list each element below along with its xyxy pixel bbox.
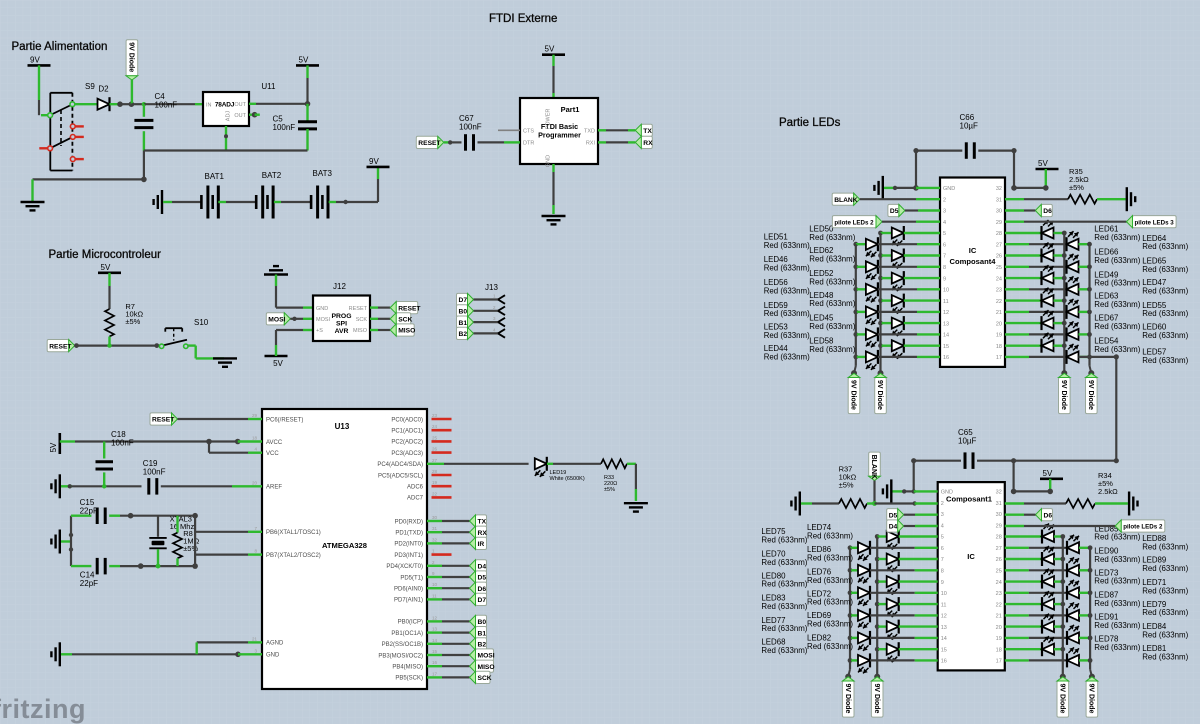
svg-text:12: 12	[943, 310, 949, 316]
svg-text:PC1(ADC1): PC1(ADC1)	[391, 429, 423, 435]
wire	[427, 620, 442, 622]
wire junction	[141, 177, 147, 183]
wire junction	[129, 101, 135, 107]
svg-text:100nF: 100nF	[273, 123, 296, 132]
wire	[884, 187, 895, 189]
svg-text:Red (633nm): Red (633nm)	[807, 598, 853, 607]
svg-text:PC2(ADC2): PC2(ADC2)	[391, 440, 423, 446]
svg-text:4: 4	[941, 523, 944, 529]
svg-text:2: 2	[941, 501, 944, 507]
wire	[893, 490, 905, 492]
net label flag D6 (Composant4)	[1041, 204, 1052, 216]
svg-text:D4: D4	[478, 564, 487, 571]
svg-text:Red (633nm): Red (633nm)	[807, 642, 853, 651]
LED LED55 (right outer)	[1005, 311, 1029, 313]
net label flag 9V Diode (left inner)	[875, 378, 887, 414]
ground (battery chain)	[161, 190, 163, 214]
pin 4 of J13	[498, 329, 505, 333]
svg-text:18: 18	[996, 344, 1002, 350]
svg-text:32: 32	[432, 537, 438, 542]
pin 1 of J13	[498, 295, 505, 299]
svg-text:24: 24	[432, 424, 438, 429]
wire	[188, 344, 196, 346]
svg-text:Red (633nm): Red (633nm)	[809, 299, 855, 308]
LED LED76 (left inner)	[875, 579, 880, 584]
wire left inner rail	[876, 537, 878, 677]
net label flag RESET (FTDI)	[416, 136, 438, 148]
wire	[552, 55, 554, 66]
LED LED65 (right outer)	[1005, 266, 1029, 268]
svg-text:19: 19	[996, 636, 1002, 642]
net label flag 9V Diode (right inner)	[1057, 681, 1069, 717]
svg-text:13: 13	[432, 627, 438, 632]
svg-text:11: 11	[941, 602, 947, 608]
wire	[109, 565, 120, 567]
wire	[75, 103, 98, 105]
wire	[627, 463, 636, 465]
net label flag B1 (U13)	[476, 627, 487, 639]
ground (S10)	[213, 357, 237, 359]
LED LED72 (left inner)	[875, 602, 880, 607]
svg-text:MOSI: MOSI	[268, 317, 285, 324]
svg-text:Red (633nm): Red (633nm)	[1094, 533, 1140, 542]
svg-text:TX: TX	[643, 128, 652, 135]
wire to ground	[33, 178, 144, 180]
svg-text:15: 15	[432, 649, 438, 654]
svg-text:VCC: VCC	[266, 451, 279, 457]
svg-text:Red (633nm): Red (633nm)	[1094, 256, 1140, 265]
svg-text:IN: IN	[206, 102, 212, 108]
svg-text:27: 27	[432, 458, 438, 463]
microcontroller U13 ATMEGA328	[262, 409, 427, 689]
svg-text:Red (633nm): Red (633nm)	[809, 277, 855, 286]
wire OUT2 stub	[249, 113, 255, 115]
svg-text:100nF: 100nF	[111, 439, 134, 448]
wire GND	[552, 164, 554, 172]
wire junction	[305, 101, 311, 107]
svg-text:PD6(AIN0): PD6(AIN0)	[394, 587, 423, 593]
svg-text:D6: D6	[1043, 208, 1052, 215]
svg-text:AGND: AGND	[266, 641, 284, 647]
LED LED48 (left inner)	[878, 298, 883, 303]
wire	[1095, 502, 1128, 504]
svg-text:11: 11	[432, 593, 437, 598]
net label flag 9V Diode (right outer)	[1086, 378, 1098, 414]
wire	[860, 198, 916, 200]
svg-text:PB7(XTAL2/TOSC2): PB7(XTAL2/TOSC2)	[266, 553, 321, 559]
LED LED47 (right outer)	[1005, 288, 1029, 290]
wire pin29 to pilote LEDs 3	[1005, 220, 1024, 222]
svg-text:ADC7: ADC7	[407, 496, 424, 502]
power 5V (reset pullup)	[98, 271, 121, 274]
svg-text:100nF: 100nF	[459, 123, 482, 132]
svg-text:15: 15	[943, 344, 949, 350]
wire	[1097, 198, 1126, 200]
LED LED50 (left inner)	[878, 231, 883, 236]
wire right outer rail	[1088, 244, 1090, 366]
svg-text:Red (633nm): Red (633nm)	[807, 620, 853, 629]
FTDI Basic Programmer Part1	[520, 98, 598, 164]
power 5V (U13 supply)	[58, 433, 61, 454]
wire	[218, 201, 226, 203]
svg-text:23: 23	[996, 591, 1002, 597]
power 5V (regulator output)	[296, 64, 319, 67]
svg-text:Red (633nm): Red (633nm)	[809, 233, 855, 242]
net label flag D6 (Composant1)	[1042, 509, 1053, 521]
wire PC4 net	[427, 463, 444, 465]
svg-text:RESET: RESET	[152, 417, 175, 424]
svg-text:D6: D6	[478, 586, 487, 593]
wire	[274, 201, 281, 203]
wire	[110, 103, 121, 105]
svg-text:Red (633nm): Red (633nm)	[1094, 300, 1140, 309]
svg-text:3: 3	[941, 512, 944, 518]
LED LED46 (left outer)	[853, 264, 858, 269]
svg-text:30: 30	[996, 512, 1002, 518]
svg-text:24: 24	[996, 580, 1002, 586]
wire	[873, 481, 875, 504]
svg-text:Red (633nm): Red (633nm)	[1142, 631, 1188, 640]
LED LED45 (left inner)	[878, 321, 883, 326]
wire right rail	[194, 516, 196, 566]
wire	[474, 310, 499, 312]
net label flag RESET (U13)	[150, 413, 172, 425]
ground (R35)	[1126, 187, 1128, 211]
LED LED82 (left inner)	[875, 647, 880, 652]
net label flag D7 (U13)	[476, 593, 487, 605]
svg-text:Red (633nm): Red (633nm)	[1142, 286, 1188, 295]
wire right inner rail	[1063, 233, 1065, 373]
svg-text:PB1(OC1A): PB1(OC1A)	[391, 631, 423, 637]
wire	[882, 221, 916, 223]
LED LED73 (right inner)	[1005, 580, 1042, 582]
net label flag SCK (U13)	[476, 671, 491, 683]
wire	[427, 565, 442, 567]
svg-text:12: 12	[432, 615, 438, 620]
wire	[478, 141, 505, 143]
svg-text:5V: 5V	[1043, 469, 1053, 478]
svg-text:AVCC: AVCC	[266, 440, 283, 446]
svg-text:9V Diode: 9V Diode	[128, 42, 135, 72]
svg-text:6: 6	[943, 242, 946, 248]
svg-text:10µF: 10µF	[958, 437, 977, 446]
svg-text:fritzing: fritzing	[0, 694, 86, 724]
wire pin29 to pilote LEDs 2	[1005, 525, 1024, 527]
ground (Composant1 GND)	[890, 479, 892, 503]
svg-text:PC6(/RESET): PC6(/RESET)	[266, 417, 303, 423]
wire right outer rail	[1089, 548, 1091, 670]
svg-text:10µF: 10µF	[960, 122, 979, 131]
svg-text:26: 26	[996, 557, 1002, 563]
wire top branch	[71, 515, 91, 517]
svg-text:PD2(INT0): PD2(INT0)	[394, 542, 423, 548]
svg-text:RESET: RESET	[418, 140, 441, 147]
svg-text:Red (633nm): Red (633nm)	[764, 264, 810, 273]
LED LED60 (right outer)	[1005, 333, 1029, 335]
svg-text:IC: IC	[969, 246, 977, 255]
svg-text:4: 4	[943, 220, 946, 226]
svg-text:23: 23	[996, 288, 1002, 294]
svg-text:16: 16	[941, 659, 947, 665]
svg-text:Red (633nm): Red (633nm)	[1142, 356, 1188, 365]
svg-text:15: 15	[941, 647, 947, 653]
svg-text:PD4(XCK/T0): PD4(XCK/T0)	[386, 564, 423, 570]
LED LED84 (right outer)	[1005, 637, 1029, 639]
wire	[427, 665, 442, 667]
svg-text:PC0(ADC0): PC0(ADC0)	[391, 417, 423, 423]
wire to PB6	[195, 531, 248, 533]
svg-text:10: 10	[943, 288, 949, 294]
net label flag SCK (J12)	[396, 313, 411, 325]
wire	[913, 461, 915, 492]
svg-text:6: 6	[941, 546, 944, 552]
svg-text:Partie LEDs: Partie LEDs	[779, 117, 841, 129]
svg-text:Composant1: Composant1	[946, 495, 993, 504]
wire	[306, 65, 308, 78]
LED LED74 (left inner)	[875, 534, 880, 539]
unconnected switch pins	[70, 124, 75, 129]
svg-text:3: 3	[943, 209, 946, 215]
svg-text:16: 16	[943, 355, 949, 361]
LED LED66 (right inner)	[1005, 254, 1042, 256]
LED LED67 (right inner)	[1005, 322, 1042, 324]
svg-text:29: 29	[996, 523, 1002, 529]
svg-text:2.5kΩ: 2.5kΩ	[1098, 487, 1118, 496]
svg-text:J12: J12	[333, 282, 346, 291]
power 9V (input)	[28, 64, 51, 67]
net label flag RX (U13)	[476, 526, 487, 538]
svg-text:28: 28	[996, 535, 1002, 541]
svg-text:31: 31	[996, 197, 1002, 203]
svg-text:MISO: MISO	[398, 328, 415, 335]
wire AREF rail	[61, 485, 72, 487]
svg-text:20: 20	[252, 480, 258, 485]
svg-text:9: 9	[943, 276, 946, 282]
svg-text:BAT1: BAT1	[205, 172, 225, 181]
svg-text:B1: B1	[459, 320, 468, 327]
wire	[427, 643, 442, 645]
svg-text:U13: U13	[335, 422, 350, 431]
net label flag pilote LEDs 3	[1133, 216, 1177, 228]
ground (Composant4 GND)	[882, 176, 884, 200]
net label flag RX	[641, 136, 652, 148]
LED LED69 (left inner)	[875, 624, 880, 629]
LED LED57 (right outer)	[1005, 356, 1029, 358]
svg-text:5V: 5V	[273, 359, 283, 368]
svg-text:24: 24	[996, 276, 1002, 282]
LED LED78 (right inner)	[1005, 648, 1042, 650]
wire	[904, 514, 915, 516]
svg-text:PB0(ICP): PB0(ICP)	[398, 620, 423, 626]
svg-text:GND: GND	[546, 155, 552, 167]
net label flag D6 (U13)	[476, 582, 487, 594]
svg-text:BLANK: BLANK	[834, 197, 858, 204]
svg-text:POWER: POWER	[546, 109, 552, 130]
svg-text:29: 29	[252, 413, 258, 418]
svg-text:17: 17	[432, 671, 438, 676]
svg-text:Red (633nm): Red (633nm)	[764, 241, 810, 250]
wire TXD to TX	[598, 129, 606, 131]
wire	[1012, 461, 1014, 492]
wire OUT1	[249, 103, 256, 105]
svg-text:MISO: MISO	[478, 664, 495, 671]
svg-text:CTS: CTS	[523, 129, 534, 135]
svg-text:Red (633nm): Red (633nm)	[1094, 643, 1140, 652]
svg-text:SCK: SCK	[356, 317, 368, 323]
svg-text:Red (633nm): Red (633nm)	[761, 602, 807, 611]
svg-text:RX: RX	[643, 140, 653, 147]
wire	[275, 345, 277, 356]
svg-text:IC: IC	[967, 552, 975, 561]
ground (R37)	[799, 492, 801, 516]
wire	[131, 103, 144, 105]
svg-text:10: 10	[432, 582, 438, 587]
ground (AREF rail)	[59, 474, 61, 498]
svg-text:30: 30	[432, 515, 438, 520]
svg-text:MOSI: MOSI	[316, 317, 331, 323]
net label flag BLANK (Composant4)	[832, 193, 854, 205]
net label flag 9V Diode (left outer)	[842, 681, 854, 717]
svg-text:22: 22	[432, 491, 438, 496]
LED LED61 (right inner)	[1005, 232, 1042, 234]
unconnected pin PC1(ADC1)	[432, 429, 452, 432]
svg-text:PD1(TXD): PD1(TXD)	[395, 531, 423, 537]
net label flag 9V Diode	[126, 40, 138, 76]
wire GND rail	[61, 653, 72, 655]
svg-text:7: 7	[941, 557, 944, 563]
svg-text:RESET: RESET	[398, 305, 421, 312]
LED LED52 (left inner)	[878, 276, 883, 281]
svg-text:22pF: 22pF	[80, 579, 98, 588]
net label flag pilote LEDs 2 (Composant4)	[832, 216, 876, 228]
svg-text:9V Diode: 9V Diode	[1087, 380, 1094, 410]
net label flag 9V Diode (left outer)	[848, 378, 860, 414]
svg-text:PROG: PROG	[331, 313, 351, 320]
wire	[370, 329, 378, 331]
svg-text:8: 8	[943, 265, 946, 271]
net label flag D5 (Composant1)	[887, 509, 898, 521]
svg-text:PC3(ADC3): PC3(ADC3)	[391, 451, 423, 457]
svg-text:9: 9	[941, 580, 944, 586]
wire	[474, 332, 499, 334]
svg-text:pilote LEDs 2: pilote LEDs 2	[1123, 524, 1163, 531]
net label flag IR (U13)	[476, 537, 487, 549]
svg-text:D7: D7	[478, 597, 487, 604]
svg-text:14: 14	[432, 638, 438, 643]
svg-text:25: 25	[996, 265, 1002, 271]
svg-text:23: 23	[432, 413, 438, 418]
svg-text:Part1: Part1	[561, 105, 580, 114]
svg-text:Red (633nm): Red (633nm)	[809, 322, 855, 331]
svg-text:100nF: 100nF	[143, 468, 166, 477]
wire	[38, 65, 40, 100]
svg-text:Red (633nm): Red (633nm)	[1094, 621, 1140, 630]
net label flag TX (U13)	[476, 515, 487, 527]
svg-text:21: 21	[996, 614, 1002, 620]
driver IC Composant4	[940, 178, 1005, 367]
svg-text:8: 8	[941, 569, 944, 575]
LED LED62 (left inner)	[878, 253, 883, 258]
svg-text:5V: 5V	[101, 263, 111, 272]
svg-text:20: 20	[996, 321, 1002, 327]
svg-text:PB3(MOSI/OC2): PB3(MOSI/OC2)	[378, 653, 423, 659]
svg-text:10: 10	[941, 591, 947, 597]
unconnected pin PC2(ADC2)	[432, 440, 452, 443]
svg-text:14: 14	[941, 636, 947, 642]
svg-text:25: 25	[996, 569, 1002, 575]
LED LED88 (right outer)	[1005, 547, 1029, 549]
svg-text:B2: B2	[459, 331, 468, 338]
wire left outer rail	[855, 244, 857, 366]
svg-text:28: 28	[996, 231, 1002, 237]
LED LED44 (left outer)	[853, 355, 858, 360]
net label flag B0 (U13)	[476, 615, 487, 627]
svg-text:B1: B1	[478, 630, 487, 637]
svg-text:PC5(ADC5/SCL): PC5(ADC5/SCL)	[378, 473, 423, 479]
wire	[867, 502, 875, 504]
LED LED85 (right inner)	[1005, 535, 1042, 537]
svg-text:BAT2: BAT2	[262, 171, 282, 180]
LED LED58 (left inner)	[878, 343, 883, 348]
unconnected pin PC0(ADC0)	[432, 418, 452, 421]
svg-text:22: 22	[996, 602, 1002, 608]
svg-text:2: 2	[943, 197, 946, 203]
pin 2 of J13	[498, 307, 505, 311]
svg-text:19: 19	[996, 333, 1002, 339]
svg-text:Red (633nm): Red (633nm)	[1094, 555, 1140, 564]
svg-text:22pF: 22pF	[80, 507, 98, 516]
svg-text:9V Diode: 9V Diode	[1088, 684, 1095, 714]
svg-text:B0: B0	[478, 619, 487, 626]
svg-text:BAT3: BAT3	[313, 169, 333, 178]
svg-text:9V Diode: 9V Diode	[844, 684, 851, 714]
svg-text:PD3(INT1): PD3(INT1)	[394, 553, 423, 559]
svg-text:32: 32	[996, 186, 1002, 192]
wire left outer rail	[849, 548, 851, 670]
svg-text:5V: 5V	[49, 442, 58, 452]
svg-text:11: 11	[943, 299, 949, 305]
svg-text:17: 17	[996, 355, 1002, 361]
svg-text:30: 30	[996, 209, 1002, 215]
wire pin31 to R34	[1005, 502, 1024, 504]
net label flag D5 (Composant4)	[888, 204, 899, 216]
wire	[178, 418, 249, 420]
svg-text:Red (633nm): Red (633nm)	[1094, 233, 1140, 242]
svg-text:±5%: ±5%	[125, 317, 140, 326]
ground	[21, 201, 45, 203]
svg-text:PD7(AIN1): PD7(AIN1)	[394, 598, 423, 604]
wire	[427, 654, 442, 656]
svg-text:D7: D7	[459, 297, 468, 304]
svg-text:BLANK: BLANK	[870, 455, 877, 480]
svg-text:Red (633nm): Red (633nm)	[761, 580, 807, 589]
svg-text:21: 21	[252, 636, 258, 641]
svg-text:5V: 5V	[299, 55, 309, 64]
svg-text:Red (633nm): Red (633nm)	[807, 554, 853, 563]
unconnected pin PC5(ADC5/SCL)	[432, 474, 452, 477]
net label flag TX	[641, 124, 652, 136]
svg-text:Red (633nm): Red (633nm)	[764, 286, 810, 295]
LED LED80 (left outer)	[848, 590, 853, 595]
wire left rail	[70, 516, 72, 566]
svg-text:Red (633nm): Red (633nm)	[1094, 577, 1140, 586]
wire	[427, 598, 442, 600]
LED LED63 (right inner)	[1005, 299, 1042, 301]
svg-text:5: 5	[941, 535, 944, 541]
svg-text:Red (633nm): Red (633nm)	[1142, 564, 1188, 573]
net label flag MOSI (U13)	[476, 649, 494, 661]
wire	[427, 531, 442, 533]
